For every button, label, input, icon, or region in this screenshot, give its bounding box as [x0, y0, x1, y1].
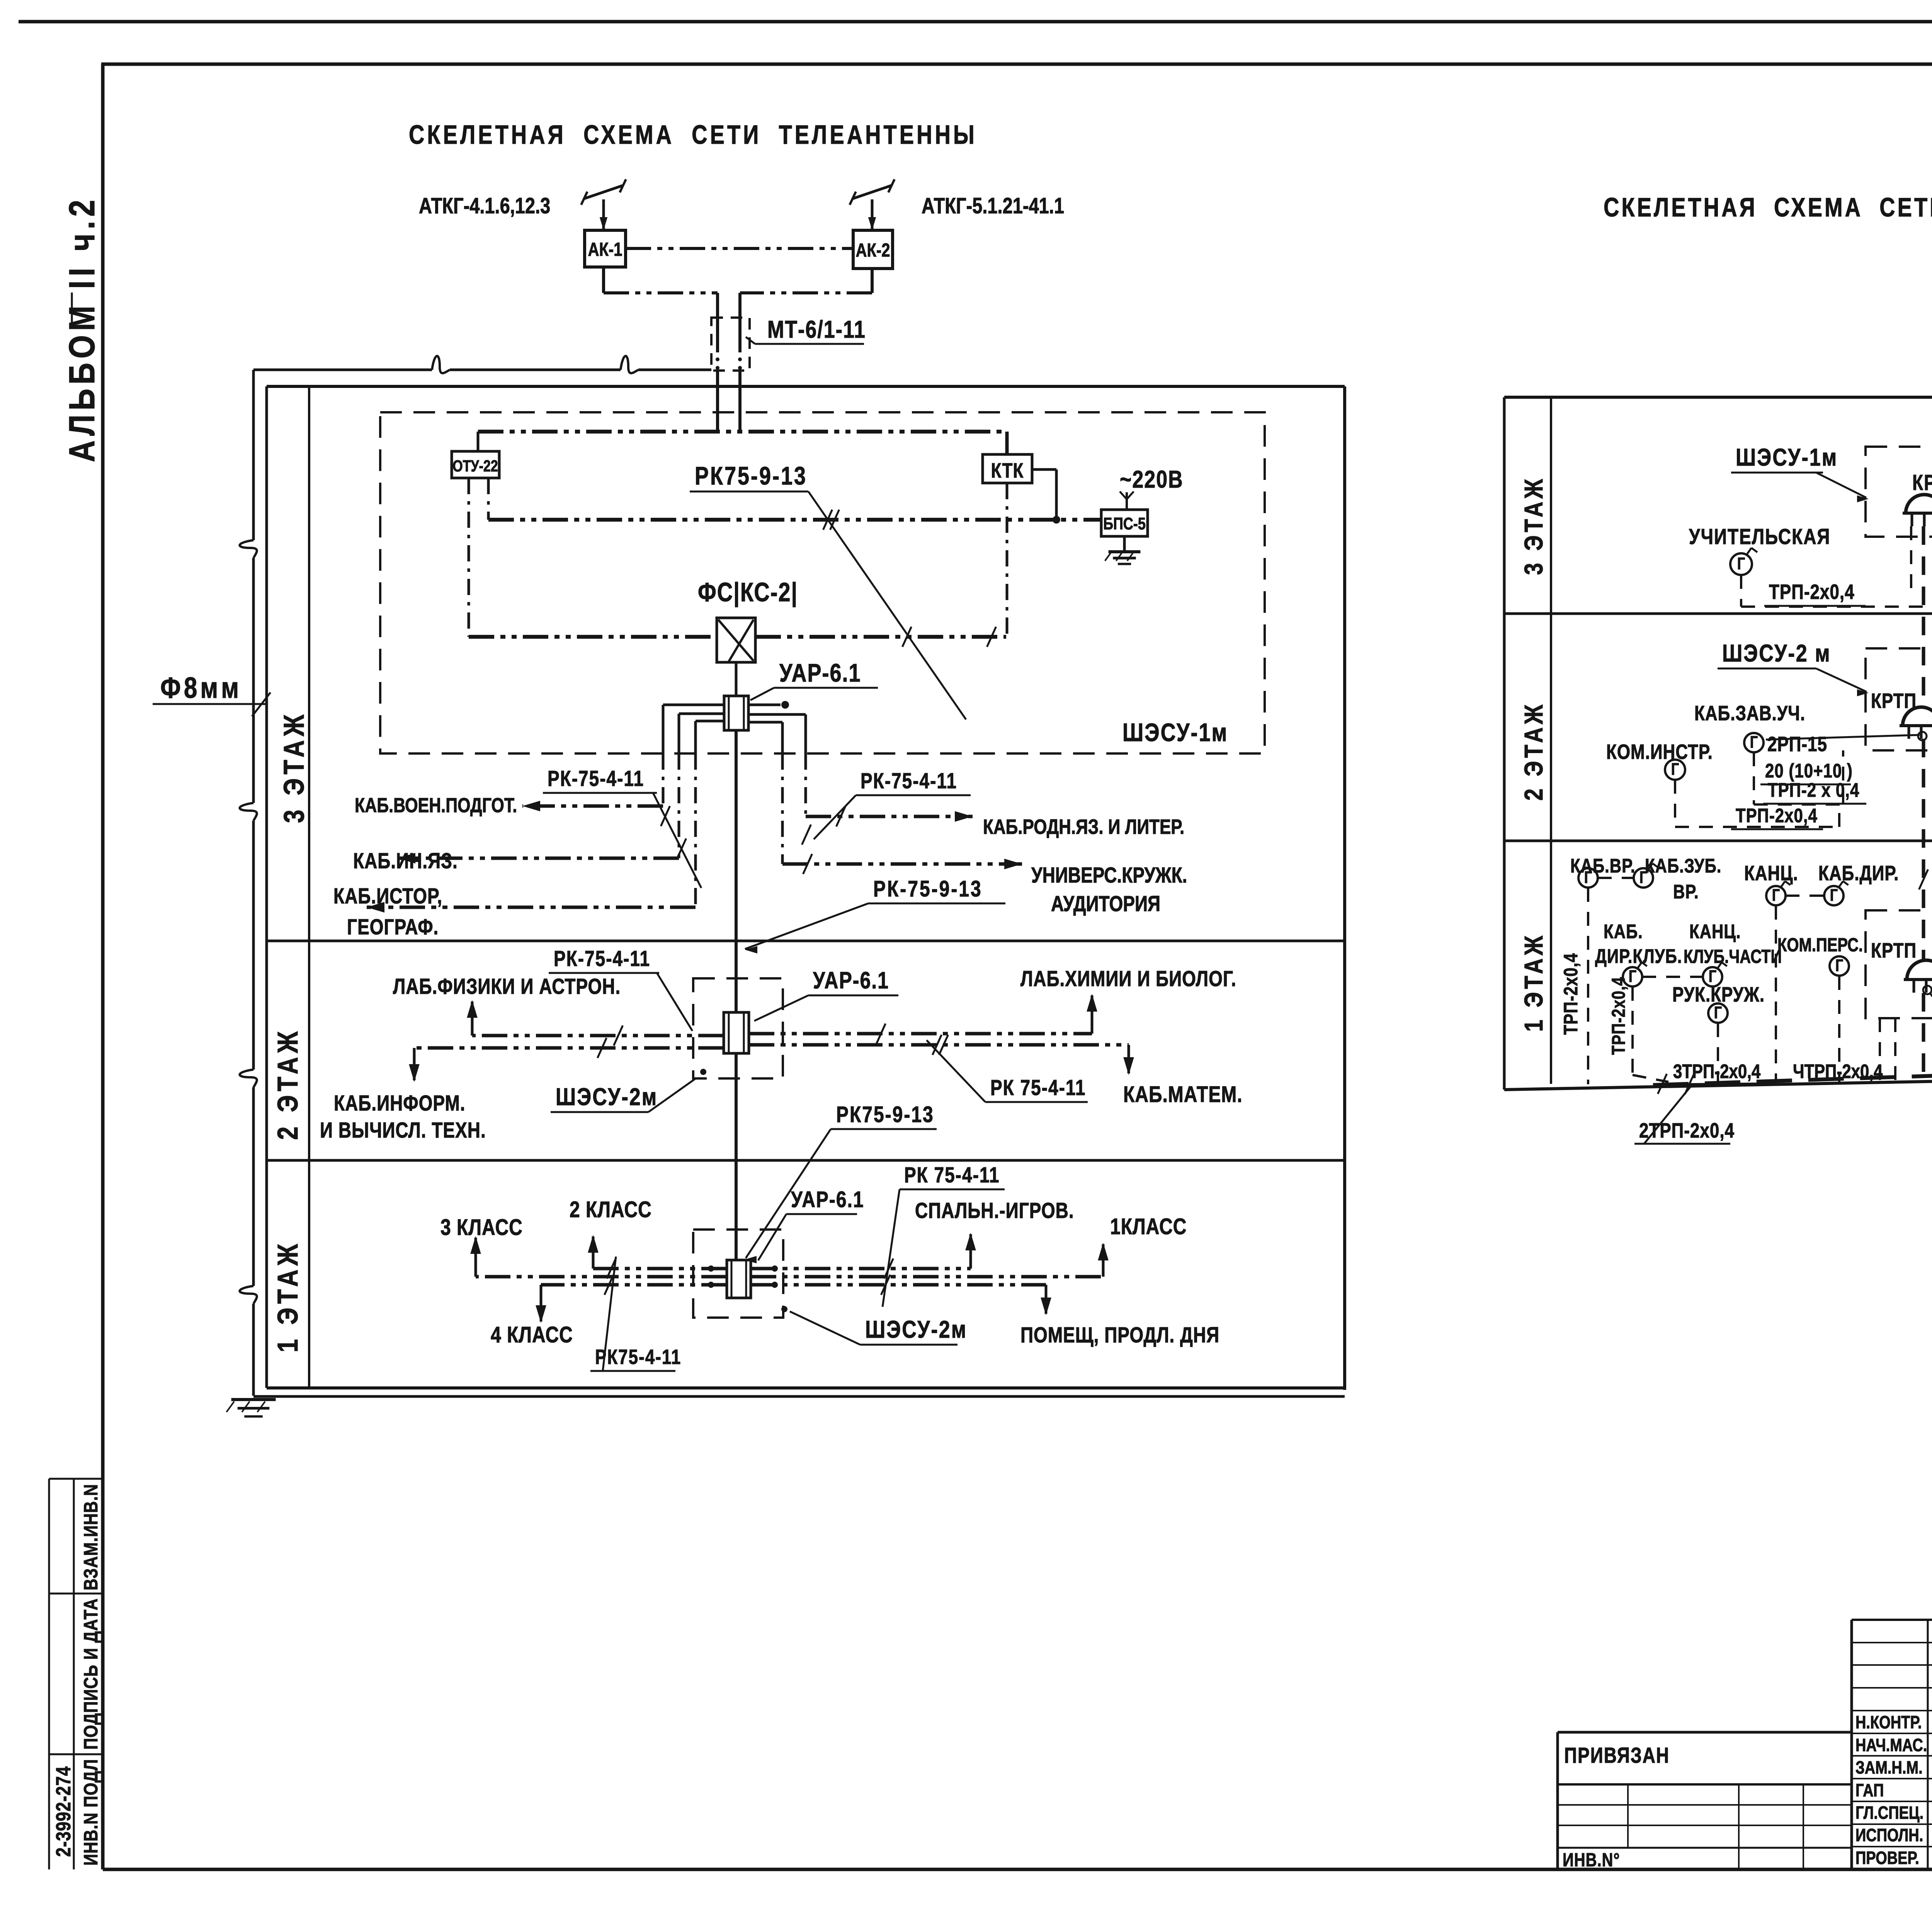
svg-text:СКЕЛЕТНАЯ СХЕМА СЕТИ ТЕЛЕАН: СКЕЛЕТНАЯ СХЕМА СЕТИ ТЕЛЕАНТЕННЫ: [409, 120, 977, 150]
svg-text:НАЧ.МАС.: НАЧ.МАС.: [1855, 1735, 1927, 1755]
phone socket Г РУК.КРУЖ.: [1708, 1003, 1728, 1023]
node dots on 1st floor cables: [708, 1265, 714, 1272]
svg-text:СКЕЛЕТНАЯ СХЕМА СЕТИ ТЕЛЕФО: СКЕЛЕТНАЯ СХЕМА СЕТИ ТЕЛЕФОНИЗАЦИИ: [1604, 193, 1932, 223]
splitter unit УАР-6.1 (3rd floor): [724, 696, 748, 730]
svg-text:Г: Г: [1584, 868, 1592, 887]
svg-text:Г: Г: [1772, 886, 1780, 905]
phone socket Г КОМ.ИНСТР.: [1665, 760, 1685, 780]
svg-text:КРТП: КРТП: [1871, 939, 1917, 962]
svg-text:Г: Г: [1830, 886, 1838, 905]
matching unit МТ-6/1-11 dashed box: [711, 318, 750, 371]
svg-text:ТРП-2х0,4: ТРП-2х0,4: [1609, 977, 1629, 1055]
svg-text:АК-2: АК-2: [856, 240, 890, 261]
antenna symbol for АК-2: [871, 199, 874, 230]
svg-text:МТ-6/1-11: МТ-6/1-11: [767, 316, 866, 343]
wire 2nd floor left lower cable: [414, 1046, 724, 1050]
dashed drops to bottom cable (left cluster): [1587, 888, 1589, 1084]
svg-text:ТРП-2х0,4: ТРП-2х0,4: [1736, 804, 1818, 827]
svg-text:ГАП: ГАП: [1855, 1780, 1884, 1800]
svg-text:ШЭСУ-2м: ШЭСУ-2м: [556, 1083, 658, 1111]
wire right riser inner (3rd floor): [748, 721, 782, 724]
splitter unit УАР-6.1 (1st floor): [727, 1260, 751, 1298]
leader 2ТРП-2х0,4 to cable: [1644, 1084, 1692, 1144]
svg-text:ШЭСУ-1м: ШЭСУ-1м: [1736, 444, 1838, 471]
drawing frame: [101, 63, 1932, 66]
svg-text:КОМ.ПЕРС.: КОМ.ПЕРС.: [1777, 935, 1863, 956]
wire 1st floor right lower cable: [751, 1283, 1046, 1287]
leader ШЭСУ-2м to КРТП-2 box: [1816, 668, 1866, 692]
node junction dot on cable B: [1053, 516, 1060, 524]
wire КТК to junction: [1032, 468, 1056, 471]
svg-text:КАБ.ЗАВ.УЧ.: КАБ.ЗАВ.УЧ.: [1694, 702, 1805, 725]
svg-text:КАБ.ДИР.: КАБ.ДИР.: [1818, 862, 1899, 885]
wire 1st floor right main cable: [751, 1275, 1103, 1279]
wire 2nd floor right upper cable: [749, 1032, 1092, 1036]
svg-text:КТК: КТК: [991, 459, 1024, 482]
secondary stamp ПРИВЯЗАН: [1558, 1731, 1852, 1734]
svg-text:ЧТРП-2х0,4: ЧТРП-2х0,4: [1793, 1060, 1883, 1082]
svg-text:ШЭСУ-2м: ШЭСУ-2м: [865, 1316, 967, 1343]
svg-text:Г: Г: [1671, 760, 1679, 779]
svg-text:ФС|КС-2|: ФС|КС-2|: [698, 578, 798, 607]
svg-text:АУДИТОРИЯ: АУДИТОРИЯ: [1051, 892, 1160, 916]
leader of РК-75-4-11 right: [814, 795, 856, 839]
phone socket Г 2РП-15: [1744, 733, 1764, 752]
wire 2nd floor right lower cable: [749, 1043, 1129, 1047]
wire cable B ОТУ-22 to БПС-5: [488, 518, 1101, 522]
wire ОТУ-22 up to cable A: [477, 432, 480, 451]
wire stub with terminator dot: [748, 704, 781, 706]
svg-text:РК 75-4-11: РК 75-4-11: [990, 1076, 1086, 1100]
svg-text:ПРОВЕР.: ПРОВЕР.: [1855, 1848, 1919, 1867]
floor divider 3/2 (left diagram): [267, 940, 1345, 942]
terminal box symbol КРТП (1st floor): [1907, 960, 1932, 980]
leader with arrow to 1st floor trunk: [746, 1129, 831, 1258]
wire АК-1 down-drop: [602, 267, 605, 293]
leader РК 75-4-11 right 1st floor: [883, 1189, 900, 1307]
dashed net КОМ.ИНСТР. drop: [1674, 780, 1676, 827]
dashed link КЛУБ phones: [1642, 976, 1703, 978]
wire right riser outer (3rd floor): [748, 713, 806, 716]
svg-text:КАБ.ВОЕН.ПОДГОТ.: КАБ.ВОЕН.ПОДГОТ.: [355, 794, 517, 817]
svg-text:АЛЬБОМ II ч.2: АЛЬБОМ II ч.2: [62, 196, 102, 462]
svg-text:УАР-6.1: УАР-6.1: [791, 1187, 864, 1213]
svg-text:БПС-5: БПС-5: [1103, 514, 1146, 533]
wire pair into МТ unit: [716, 293, 719, 352]
ground symbol at mast bottom: [231, 1398, 276, 1401]
svg-text:АТКГ-4.1.6,12.3: АТКГ-4.1.6,12.3: [419, 194, 550, 218]
node circle under КРТП-2: [1918, 732, 1927, 740]
dashed box КРТП (1st floor): [1866, 910, 1932, 1018]
wire pair МТ box down to 3rd floor cable: [716, 371, 719, 432]
svg-text:2 КЛАСС: 2 КЛАСС: [570, 1197, 652, 1223]
wire left riser middle (3rd floor): [679, 713, 724, 715]
svg-text:1 ЭТАЖ: 1 ЭТАЖ: [272, 1240, 304, 1352]
dashed box КРТП (2nd floor): [1866, 648, 1932, 750]
svg-text:ЛАБ.ФИЗИКИ И АСТРОН.: ЛАБ.ФИЗИКИ И АСТРОН.: [393, 975, 621, 998]
svg-text:Н.КОНТР.: Н.КОНТР.: [1855, 1712, 1922, 1732]
svg-text:КАБ.МАТЕМ.: КАБ.МАТЕМ.: [1123, 1082, 1243, 1107]
wire КТК drop to cable C: [1006, 483, 1009, 637]
svg-text:РК-75-4-11: РК-75-4-11: [554, 947, 650, 971]
signature table grid: [1852, 1619, 1932, 1621]
ground under БПС-5: [1123, 536, 1126, 550]
grounding conductor down left side: [252, 370, 255, 540]
svg-text:ЗАМ.Н.М.: ЗАМ.Н.М.: [1855, 1757, 1923, 1777]
splitter unit УАР-6.1 (2nd floor): [724, 1012, 749, 1053]
svg-text:КРТП: КРТП: [1912, 471, 1932, 495]
wire АК-2 down-drop: [871, 269, 874, 293]
building outline of school (left diagram): [267, 385, 1345, 388]
wire tap УНИВЕРС.КРУЖК.: [782, 862, 1022, 866]
floor divider 3/2 (right diagram): [1504, 612, 1932, 615]
floor divider 2/1 (left diagram): [267, 1159, 1345, 1162]
svg-text:РК-75-4-11: РК-75-4-11: [548, 767, 644, 791]
svg-text:ТРП-2х0,4: ТРП-2х0,4: [1769, 581, 1855, 604]
leader of РК-75-4-11 left: [653, 793, 701, 888]
svg-text:И ВЫЧИСЛ. ТЕХН.: И ВЫЧИСЛ. ТЕХН.: [320, 1118, 486, 1142]
svg-text:КАБ.ИН.ЯЗ.: КАБ.ИН.ЯЗ.: [353, 849, 458, 873]
svg-text:КАНЦ.: КАНЦ.: [1689, 920, 1741, 942]
dashed enclosure ШЭСУ-2м (2nd floor): [693, 978, 783, 1078]
svg-text:2 ЭТАЖ: 2 ЭТАЖ: [1519, 702, 1548, 801]
wire 1st floor left upper cable: [593, 1267, 727, 1270]
svg-text:ИНВ.N ПОДЛ: ИНВ.N ПОДЛ: [80, 1759, 101, 1866]
svg-text:ГЕОГРАФ.: ГЕОГРАФ.: [347, 915, 439, 939]
svg-text:КАБ.: КАБ.: [1604, 920, 1643, 942]
filter ФС/КС-2 box: [717, 618, 755, 662]
svg-text:УЧИТЕЛЬСКАЯ: УЧИТЕЛЬСКАЯ: [1689, 525, 1830, 549]
building outline of school (right diagram): [1504, 396, 1932, 399]
svg-text:Ф8мм: Ф8мм: [160, 671, 242, 704]
wire left riser outer (3rd floor): [663, 704, 724, 706]
leader with arrow to trunk riser: [745, 903, 868, 949]
leader ШЭСУ-1м to КРТП box: [1816, 473, 1866, 498]
wire trunk dashed riser to bottom cable: [1922, 993, 1925, 1082]
svg-text:УАР-6.1: УАР-6.1: [813, 967, 889, 993]
node circle under КРТП-1: [1923, 986, 1932, 994]
amplifier box АК-1: [585, 230, 626, 267]
wire tap КАБ.ИН.ЯЗ.: [398, 857, 679, 860]
svg-text:3 КЛАСС: 3 КЛАСС: [440, 1215, 523, 1240]
amplifier box АК-2: [853, 230, 893, 269]
wire left riser inner (3rd floor): [696, 720, 724, 723]
svg-text:КАБ.ИСТОР,: КАБ.ИСТОР,: [333, 884, 442, 908]
svg-text:ТРП-2 х 0,4: ТРП-2 х 0,4: [1768, 779, 1859, 801]
svg-text:РК75-4-11: РК75-4-11: [595, 1346, 681, 1369]
leader from КРТП-2 node to 2РП-15: [1766, 735, 1920, 740]
svg-text:ОТУ-22: ОТУ-22: [452, 457, 498, 475]
leader of РК75-9-13 top: [808, 492, 966, 719]
svg-text:2-3992-274: 2-3992-274: [52, 1766, 75, 1857]
svg-text:РК 75-4-11: РК 75-4-11: [904, 1163, 1000, 1187]
leader ШЭСУ-2м to box corner: [648, 1078, 696, 1112]
svg-text:ДИР.КЛУБ.: ДИР.КЛУБ.: [1595, 945, 1682, 967]
svg-text:3 ЭТАЖ: 3 ЭТАЖ: [278, 711, 310, 823]
svg-text:3 ЭТАЖ: 3 ЭТАЖ: [1519, 476, 1548, 575]
svg-text:Г: Г: [1709, 967, 1716, 986]
floor divider 2/1 (right diagram): [1504, 840, 1932, 842]
wire ОТУ-22 down to cable C: [468, 478, 470, 637]
svg-text:РК75-9-13: РК75-9-13: [836, 1102, 934, 1128]
svg-text:КАБ.ИНФОРМ.: КАБ.ИНФОРМ.: [334, 1091, 466, 1115]
svg-text:УАР-6.1: УАР-6.1: [779, 658, 861, 687]
svg-text:20 (10+10 ): 20 (10+10 ): [1765, 760, 1853, 782]
svg-text:Г: Г: [1714, 1003, 1722, 1022]
svg-text:2 ЭТАЖ: 2 ЭТАЖ: [272, 1027, 304, 1140]
svg-text:КОМ.ИНСТР.: КОМ.ИНСТР.: [1606, 741, 1713, 764]
dashed enclosure ШЭСУ-1м: [380, 412, 1265, 753]
leader РК 75-4-11 right: [927, 1040, 985, 1102]
wire cable C ФС to КТК drop: [755, 635, 1006, 639]
dashed link between ВР phones: [1598, 877, 1634, 879]
svg-text:ВЗАМ.ИНВ.N: ВЗАМ.ИНВ.N: [80, 1484, 101, 1590]
svg-text:~220В: ~220В: [1120, 466, 1184, 493]
wire ОТУ-22 down to cable B: [487, 478, 490, 520]
svg-text:КАНЦ.: КАНЦ.: [1744, 862, 1798, 885]
wire trunk riser 3rd to 2nd floor: [735, 730, 738, 1012]
svg-text:ПОМЕЩ, ПРОДЛ. ДНЯ: ПОМЕЩ, ПРОДЛ. ДНЯ: [1020, 1323, 1219, 1347]
dashed net 2РП-15 to box: [1753, 752, 1755, 804]
wire 1st floor right upper cable: [751, 1267, 971, 1270]
svg-text:АТКГ-5.1.21-41.1: АТКГ-5.1.21-41.1: [922, 194, 1064, 218]
wire 1st floor left lower cable: [541, 1283, 727, 1287]
svg-text:ПРИВЯЗАН: ПРИВЯЗАН: [1564, 1743, 1670, 1767]
phone net horizontal ТРП line (3rd floor): [1741, 605, 1932, 608]
svg-text:1КЛАСС: 1КЛАСС: [1110, 1214, 1187, 1240]
antenna symbol for АК-1: [602, 199, 605, 230]
distribution box ОТУ-22: [452, 451, 499, 478]
wire trunk dashed riser 2nd to 1st: [1922, 739, 1925, 960]
heavy dashed incoming cable ТПП-20х2х0,5: [1653, 1060, 1932, 1085]
svg-text:РК-75-9-13: РК-75-9-13: [873, 877, 983, 902]
wire 1st floor left main cable: [476, 1275, 727, 1279]
svg-text:ЛАБ.ХИМИИ И БИОЛОГ.: ЛАБ.ХИМИИ И БИОЛОГ.: [1020, 967, 1236, 991]
svg-text:СПАЛЬН.-ИГРОВ.: СПАЛЬН.-ИГРОВ.: [915, 1199, 1074, 1223]
leader УАР-6.1 1st floor: [758, 1214, 786, 1260]
dashed enclosure ШЭСУ-2м (1st floor): [693, 1230, 783, 1318]
svg-text:Г: Г: [1750, 733, 1758, 752]
svg-text:КЛУБ.ЧАСТИ: КЛУБ.ЧАСТИ: [1684, 946, 1782, 967]
svg-text:Г: Г: [1835, 956, 1843, 975]
svg-text:ШЭСУ-1м: ШЭСУ-1м: [1122, 718, 1228, 747]
wire ФС to УАР unit: [735, 662, 738, 696]
svg-text:ИСПОЛН.: ИСПОЛН.: [1855, 1825, 1923, 1845]
leader РК75-4-11 1st floor: [603, 1257, 616, 1371]
tick on bottom cable: [1658, 1074, 1667, 1094]
svg-text:ПОДПИСЬ И ДАТА: ПОДПИСЬ И ДАТА: [80, 1598, 101, 1750]
wire phone drop УЧИТЕЛЬСКАЯ: [1740, 575, 1742, 607]
svg-text:АК-1: АК-1: [588, 239, 622, 260]
sheet outer top edge: [19, 20, 1932, 24]
building wall line with breaks: [253, 369, 432, 371]
dashed stubs below КРТП-1 box: [1879, 1018, 1881, 1080]
svg-text:1 ЭТАЖ: 1 ЭТАЖ: [1519, 933, 1548, 1032]
power unit БПС-5: [1101, 510, 1148, 536]
terminal box symbol КРТП (2nd floor): [1903, 707, 1932, 726]
wire tap КАБ.ВОЕН.ПОДГОТ.: [522, 804, 663, 808]
svg-text:РК75-9-13: РК75-9-13: [695, 461, 807, 490]
wire trunk cable A on 3rd floor: [478, 430, 1007, 434]
svg-text:РК-75-4-11: РК-75-4-11: [861, 769, 957, 793]
phone socket Г КАБ.ЗУБ.ВР.: [1634, 868, 1653, 888]
svg-text:ВР.: ВР.: [1673, 881, 1699, 903]
leader РК-75-4-11 2nd floor: [657, 973, 692, 1031]
svg-text:2РП-15: 2РП-15: [1767, 733, 1827, 756]
phone socket Г КАНЦ.: [1766, 886, 1786, 905]
phone socket Г КЛУБ.ЧАСТИ: [1703, 967, 1722, 986]
margin stamp table: [48, 1479, 50, 1869]
svg-text:4 КЛАСС: 4 КЛАСС: [491, 1323, 573, 1348]
svg-text:КАБ.РОДН.ЯЗ. И ЛИТЕР.: КАБ.РОДН.ЯЗ. И ЛИТЕР.: [983, 816, 1184, 838]
terminal box symbol КРТП (3rd floor): [1906, 495, 1932, 513]
wire trunk dashed risers below КРТП-3: [1910, 526, 1912, 598]
wire АК-1 to АК-2: [626, 247, 853, 250]
wire 2nd floor left upper cable: [472, 1034, 724, 1037]
svg-text:Г: Г: [1737, 554, 1745, 573]
phone socket Г КАБ.ДИР.: [1824, 886, 1844, 905]
svg-text:Г: Г: [1639, 868, 1647, 887]
dashed link КАНЦ-ДИР: [1786, 895, 1824, 897]
phone socket Г КОМ.ПЕРС.: [1830, 956, 1849, 976]
wire tap КАБ.РОДН.ЯЗ.: [806, 815, 973, 818]
phone socket Г УЧИТЕЛЬСКАЯ: [1730, 553, 1752, 575]
phone socket Г ДИР.КЛУБ.: [1623, 967, 1642, 986]
svg-text:УНИВЕРС.КРУЖК.: УНИВЕРС.КРУЖК.: [1031, 863, 1187, 887]
wire trunk riser 2nd to 1st floor: [735, 1053, 738, 1259]
splitter box КТК: [983, 454, 1032, 483]
svg-text:Г: Г: [1629, 967, 1636, 986]
svg-text:ГЛ.СПЕЦ.: ГЛ.СПЕЦ.: [1855, 1803, 1923, 1822]
leader node to 2РП-15 1st floor: [1930, 994, 1932, 1039]
wire tap КАБ.ИСТОР. ГЕОГРАФ.: [367, 906, 696, 909]
leader ШЭСУ-2м 1st floor: [790, 1311, 860, 1345]
dashed box КРТП (3rd floor): [1866, 447, 1932, 537]
svg-text:ТРП-2х0,4: ТРП-2х0,4: [1560, 953, 1581, 1035]
svg-text:ИНВ.N°: ИНВ.N°: [1563, 1850, 1620, 1871]
phone socket Г КАБ.ВР.: [1578, 868, 1598, 888]
wire cable C ОТУ-22 to ФС: [469, 635, 717, 639]
svg-text:ШЭСУ-2 м: ШЭСУ-2 м: [1722, 639, 1831, 667]
